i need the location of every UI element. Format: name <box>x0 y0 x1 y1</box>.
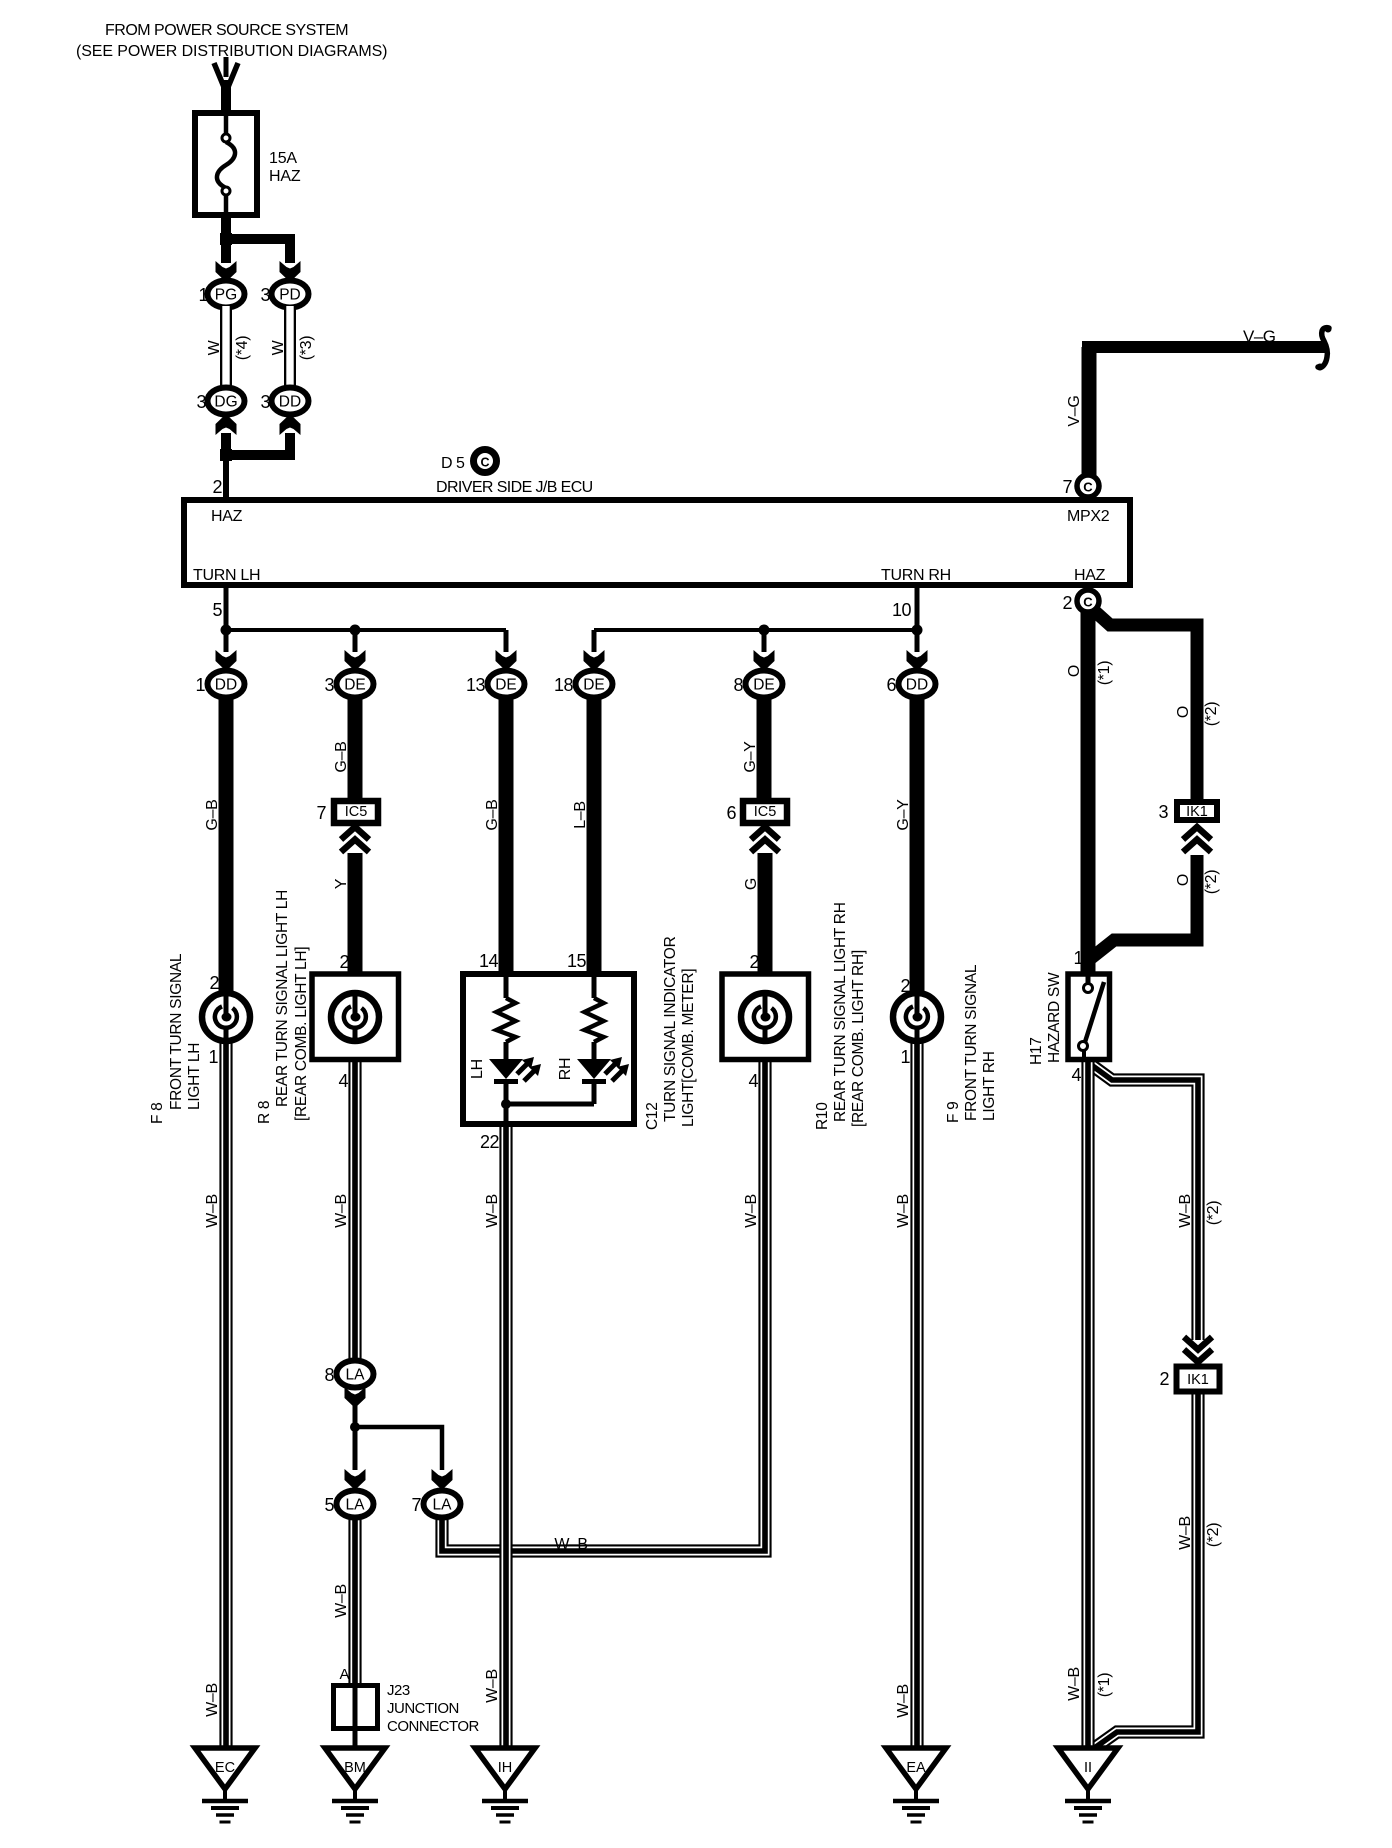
svg-text:V–G: V–G <box>1243 327 1276 346</box>
svg-text:G–B: G–B <box>333 741 350 772</box>
wire L-B DE18 to comb meter <box>587 697 602 974</box>
wire LA junction to LA5 <box>353 1427 358 1470</box>
svg-text:(SEE POWER DISTRIBUTION DIAGRA: (SEE POWER DISTRIBUTION DIAGRAMS) <box>76 43 387 60</box>
wire O (*1) ECU HAZ pin2 down to hazard sw pin1 <box>1081 612 1096 973</box>
svg-text:G–Y: G–Y <box>895 799 912 831</box>
svg-text:D 5: D 5 <box>441 455 465 472</box>
connector pigtail at V-G wire end <box>1317 326 1332 371</box>
wire LA8 to junction <box>353 1405 358 1430</box>
connector DD pin6 <box>899 671 936 698</box>
wire turn LH rail <box>226 628 506 632</box>
pin 7 label MPX2 <box>1062 477 1072 497</box>
svg-text:IK1: IK1 <box>1187 1372 1209 1388</box>
svg-text:G–B: G–B <box>204 799 221 830</box>
label V-G (vertical) <box>1066 395 1083 426</box>
label W-B col6 lower <box>895 1684 912 1718</box>
pin 14 label <box>479 951 499 971</box>
arrow into DG from below <box>216 414 237 435</box>
label W-B col3 lower <box>484 1669 501 1703</box>
arrow into LA7 <box>432 1469 453 1490</box>
svg-text:IC5: IC5 <box>345 804 368 820</box>
label LH <box>469 1059 486 1079</box>
svg-text:FROM POWER SOURCE SYSTEM: FROM POWER SOURCE SYSTEM <box>105 22 348 39</box>
label G col5 <box>743 878 760 890</box>
svg-text:W–B: W–B <box>895 1194 912 1228</box>
wire drop to DE13 <box>504 630 509 652</box>
svg-text:22: 22 <box>480 1132 500 1152</box>
svg-text:1: 1 <box>900 1047 910 1067</box>
svg-text:EC: EC <box>215 1760 235 1776</box>
wire drop to DD6 <box>915 630 920 652</box>
label (*2) branch upper <box>1203 702 1220 727</box>
svg-text:DG: DG <box>214 394 237 411</box>
svg-text:HAZ: HAZ <box>269 168 301 185</box>
svg-text:C12: C12 <box>644 1102 661 1130</box>
junction dot inside meter <box>501 1099 511 1109</box>
svg-text:18: 18 <box>554 675 574 695</box>
ground IH <box>475 1748 535 1822</box>
ground EC <box>195 1748 255 1822</box>
svg-text:TURN SIGNAL INDICATOR: TURN SIGNAL INDICATOR <box>662 936 679 1122</box>
wire W-B (*1) hazard sw pin4 to ground II <box>1081 1060 1094 1749</box>
connector DG pin3 <box>208 388 245 415</box>
pin 3 label DD top <box>260 392 270 412</box>
junction dot at pin10 rail <box>912 625 923 636</box>
ground BM <box>325 1748 385 1822</box>
svg-text:O: O <box>1175 706 1192 718</box>
label 15A HAZ <box>269 150 301 185</box>
label (SEE POWER DISTRIBUTION DIAGRAMS) <box>76 43 387 60</box>
wire W-B front turn RH to ground EA <box>910 1040 923 1749</box>
wire inside meter LH branch <box>504 974 509 998</box>
pin A label J23 <box>339 1666 349 1683</box>
arrow into connector PG <box>216 261 237 282</box>
label RH <box>557 1058 574 1081</box>
pin 5 label TURN LH <box>212 600 222 620</box>
wire O (*1) ECU HAZ pin2 to hazard sw branch to IK1 pin3 <box>1090 607 1197 801</box>
label (*1) hazard lower <box>1096 1673 1113 1698</box>
svg-text:G–B: G–B <box>484 799 501 830</box>
connector IC5 pin6 <box>743 801 787 823</box>
svg-text:IC5: IC5 <box>754 804 777 820</box>
pin 2 label ECU HAZ top <box>212 477 222 497</box>
svg-text:(*4): (*4) <box>234 336 251 361</box>
arrow double chevron into IC5 left <box>341 827 369 852</box>
svg-text:DE: DE <box>344 677 366 694</box>
svg-text:R10: R10 <box>814 1102 831 1130</box>
connector DE pin8 <box>746 671 783 698</box>
pin 2 label R8 <box>339 952 349 972</box>
pin 2 label F8 <box>209 973 219 993</box>
svg-text:DRIVER SIDE J/B ECU: DRIVER SIDE J/B ECU <box>436 479 593 496</box>
pin 15 label <box>567 951 587 971</box>
svg-text:DD: DD <box>215 677 237 694</box>
node TURN LH <box>193 567 260 584</box>
wire G-B DD1 to front turn LH <box>219 697 234 996</box>
connector PG pin1 <box>208 281 245 308</box>
svg-text:J23: J23 <box>387 1682 410 1699</box>
label (*3) <box>298 336 315 361</box>
svg-text:Y: Y <box>333 878 350 889</box>
node HAZ bottom-right <box>1074 567 1106 584</box>
connector IK1 pin3 <box>1177 802 1217 820</box>
label FROM POWER SOURCE SYSTEM <box>105 22 348 39</box>
svg-text:1: 1 <box>195 675 205 695</box>
svg-text:W–B: W–B <box>333 1584 350 1618</box>
svg-text:JUNCTION: JUNCTION <box>387 1700 459 1717</box>
connector DD pin1 <box>208 671 245 698</box>
pin 3 label IK1 <box>1158 802 1168 822</box>
svg-text:FRONT TURN SIGNAL: FRONT TURN SIGNAL <box>963 964 980 1121</box>
connector LA pin8 <box>337 1361 374 1388</box>
wire W-B rear turn LH to LA8 <box>348 1060 361 1363</box>
wire W-B comb meter pin22 to ground IH <box>499 1125 512 1749</box>
resistor LH <box>497 998 516 1042</box>
svg-text:(*2): (*2) <box>1205 1523 1222 1548</box>
wire drop to DE18 <box>592 630 597 652</box>
connector DE pin18 <box>576 671 613 698</box>
svg-text:V–G: V–G <box>1066 395 1083 426</box>
label O branch lower <box>1175 874 1192 886</box>
svg-text:LIGHT LH: LIGHT LH <box>186 1043 203 1110</box>
label DRIVER SIDE J/B ECU <box>436 479 593 496</box>
wire drop to DD1 <box>224 630 229 652</box>
svg-text:5: 5 <box>212 600 222 620</box>
svg-text:13: 13 <box>466 675 486 695</box>
svg-text:15A: 15A <box>269 150 297 167</box>
wire G-B DE13 to comb meter <box>499 697 514 974</box>
arrow from power source <box>214 57 238 92</box>
wire resistor to LED LH <box>504 1042 509 1060</box>
label O main <box>1066 665 1083 677</box>
svg-text:7: 7 <box>316 803 326 823</box>
arrow into connector DE pin18 <box>584 650 605 671</box>
pin 1 label F9 <box>900 1047 910 1067</box>
svg-text:(*1): (*1) <box>1096 1673 1113 1698</box>
svg-text:REAR TURN SIGNAL LIGHT LH: REAR TURN SIGNAL LIGHT LH <box>274 890 291 1107</box>
pin 6 label IC5 right <box>726 803 736 823</box>
svg-text:IK1: IK1 <box>1186 804 1208 820</box>
arrow out of LA8 <box>345 1387 366 1408</box>
svg-text:II: II <box>1084 1760 1092 1776</box>
junction connector J23 <box>334 1685 378 1729</box>
connector LA pin5 <box>337 1491 374 1518</box>
svg-text:6: 6 <box>886 675 896 695</box>
svg-text:G: G <box>743 878 760 890</box>
svg-text:O: O <box>1175 874 1192 886</box>
pin 1 label hazard sw <box>1073 948 1083 968</box>
combination meter C12 box <box>463 974 634 1124</box>
svg-text:2: 2 <box>212 477 222 497</box>
wire branch to PD <box>226 239 290 263</box>
arrow into connector DD pin1 <box>216 650 237 671</box>
label W-B col2 lower <box>333 1584 350 1618</box>
junction dot LA <box>350 1422 360 1432</box>
wire W-B front turn LH to ground EC <box>219 1040 232 1749</box>
svg-text:(*2): (*2) <box>1203 870 1220 895</box>
wire ECU pin5 stub <box>224 588 229 632</box>
pin 3 label DG <box>196 392 206 412</box>
wire W (*4) PG to DG <box>220 306 232 390</box>
wire DG down to junction <box>221 433 231 457</box>
connector DE pin3 <box>337 671 374 698</box>
junction dot at DE3 drop <box>350 625 361 636</box>
name F8 front turn signal light LH <box>149 953 203 1124</box>
svg-text:HAZARD SW: HAZARD SW <box>1046 972 1063 1063</box>
switch H17 hazard SW <box>1068 974 1110 1062</box>
svg-text:3: 3 <box>1158 802 1168 822</box>
svg-text:1: 1 <box>1073 948 1083 968</box>
connector PD pin3 <box>272 281 309 308</box>
label V-G (horizontal) <box>1243 327 1276 346</box>
svg-text:2: 2 <box>209 973 219 993</box>
svg-text:PD: PD <box>279 287 301 304</box>
fuse 15A HAZ <box>195 113 257 216</box>
label W-B col3 upper <box>484 1194 501 1228</box>
svg-text:DD: DD <box>906 677 928 694</box>
pin 2 label HAZ right <box>1062 593 1072 613</box>
svg-text:PG: PG <box>215 287 237 304</box>
svg-text:2: 2 <box>1062 593 1072 613</box>
wire V-G horizontal <box>1082 341 1326 353</box>
wire J23 to ground BM <box>353 1731 358 1749</box>
svg-text:W–B: W–B <box>1177 1194 1194 1228</box>
wire into ECU HAZ pin2 <box>223 455 229 499</box>
label (*4) <box>234 336 251 361</box>
wire drop to DE3 <box>353 630 358 652</box>
svg-text:C: C <box>1083 595 1093 610</box>
wire W (*3) PD to DD <box>284 306 296 390</box>
name F9 front turn signal light RH <box>945 964 998 1123</box>
pin 22 label <box>480 1132 500 1152</box>
label W-B col1 upper <box>204 1194 221 1228</box>
svg-text:5: 5 <box>324 1495 334 1515</box>
svg-text:(*3): (*3) <box>298 336 315 361</box>
label W-B col5 vertical <box>743 1194 760 1228</box>
svg-text:MPX2: MPX2 <box>1067 508 1110 525</box>
svg-text:4: 4 <box>748 1071 758 1091</box>
svg-text:4: 4 <box>1071 1065 1081 1085</box>
ground II <box>1058 1748 1118 1822</box>
svg-text:W–B: W–B <box>204 1194 221 1228</box>
arrow into connector DE pin3 <box>345 650 366 671</box>
svg-text:1: 1 <box>208 1047 218 1067</box>
svg-text:3: 3 <box>260 392 270 412</box>
wire W-B (*2) IK1 pin2 to ground II lower segment <box>1093 1392 1198 1749</box>
arrow into DD from below <box>280 414 301 435</box>
wire W-B (*2) hazard sw pin4 loop upper segment <box>1090 1064 1198 1340</box>
pin 1 label F8 <box>208 1047 218 1067</box>
svg-text:EA: EA <box>906 1760 926 1776</box>
svg-text:(*1): (*1) <box>1096 661 1113 686</box>
svg-text:W–B: W–B <box>484 1669 501 1703</box>
wire LED RH down to join <box>592 1084 597 1104</box>
svg-text:HAZ: HAZ <box>211 508 243 525</box>
svg-text:15: 15 <box>567 951 587 971</box>
label Y col2 <box>333 878 350 889</box>
pin 3 label DE <box>324 675 334 695</box>
label W-B loop lower <box>1177 1516 1194 1550</box>
svg-text:2: 2 <box>749 952 759 972</box>
svg-text:6: 6 <box>726 803 736 823</box>
connector LA pin7 <box>424 1491 461 1518</box>
svg-text:L–B: L–B <box>572 801 589 829</box>
arrow into connector DE pin13 <box>496 650 517 671</box>
svg-text:TURN RH: TURN RH <box>881 567 951 584</box>
svg-text:W–B: W–B <box>895 1684 912 1718</box>
node MPX2 <box>1067 508 1110 525</box>
junction dot at pin5 rail <box>221 625 232 636</box>
arrow into connector DD pin6 <box>907 650 928 671</box>
svg-text:W–B: W–B <box>484 1194 501 1228</box>
svg-text:W–B: W–B <box>743 1194 760 1228</box>
wire W-B LA5 to junction connector J23 <box>348 1515 361 1685</box>
pin 1 label PG <box>198 285 208 305</box>
wire below fuse <box>221 216 231 244</box>
wire LED LH to junction <box>504 1084 509 1127</box>
pin 13 label DE <box>466 675 486 695</box>
svg-text:C: C <box>480 456 489 470</box>
svg-text:TURN LH: TURN LH <box>193 567 260 584</box>
svg-text:REAR TURN SIGNAL LIGHT RH: REAR TURN SIGNAL LIGHT RH <box>832 902 849 1122</box>
svg-text:7: 7 <box>1062 477 1072 497</box>
lamp F8 front turn signal light LH <box>202 993 250 1041</box>
ground EA <box>886 1748 946 1822</box>
svg-text:2: 2 <box>900 976 910 996</box>
wire G IC5 to rear turn RH <box>758 853 773 974</box>
label W-B col6 upper <box>895 1194 912 1228</box>
pin 18 label DE <box>554 675 574 695</box>
svg-text:DE: DE <box>753 677 775 694</box>
arrow double chevron into IK1 pin2 <box>1184 1337 1212 1362</box>
connector DD pin3 top <box>272 388 309 415</box>
lamp R8 rear turn signal light LH <box>312 974 399 1060</box>
wire ECU pin10 stub <box>915 588 920 632</box>
arrow double chevron into IC5 right <box>751 827 779 852</box>
svg-text:DE: DE <box>495 677 517 694</box>
pin 4 label R10 <box>748 1071 758 1091</box>
label G-B col3 <box>484 799 501 830</box>
name R10 rear turn signal light RH <box>814 902 867 1130</box>
svg-text:IH: IH <box>498 1760 513 1776</box>
label (*2) loop lower <box>1205 1523 1222 1548</box>
svg-text:14: 14 <box>479 951 499 971</box>
svg-text:W–B: W–B <box>1066 1667 1083 1701</box>
label W-B hazard lower <box>1066 1667 1083 1701</box>
pin 2 label F9 <box>900 976 910 996</box>
svg-text:2: 2 <box>1159 1369 1169 1389</box>
label (*1) main <box>1096 661 1113 686</box>
wire V-G vertical to ECU MPX2 pin7 <box>1082 347 1097 477</box>
wire resistor to LED RH <box>592 1042 597 1060</box>
label W-B loop upper <box>1177 1194 1194 1228</box>
label G-Y col5 <box>742 741 759 773</box>
svg-text:3: 3 <box>260 285 270 305</box>
svg-text:C: C <box>1083 480 1093 495</box>
wire stub to PG <box>221 239 231 263</box>
svg-text:W: W <box>270 339 287 355</box>
svg-text:A: A <box>339 1666 349 1683</box>
connector IC5 pin7 <box>334 801 378 823</box>
label G-Y col6 <box>895 799 912 831</box>
svg-text:BM: BM <box>344 1760 366 1776</box>
wire G-Y DD6 to front turn RH <box>910 697 925 996</box>
resistor RH <box>585 998 604 1042</box>
wire DD down to junction <box>231 433 290 455</box>
svg-text:DE: DE <box>583 677 605 694</box>
svg-text:F 8: F 8 <box>149 1103 166 1125</box>
svg-text:F 9: F 9 <box>945 1102 962 1124</box>
svg-text:LH: LH <box>469 1059 486 1079</box>
label W-B col2 upper <box>333 1194 350 1228</box>
svg-text:O: O <box>1066 665 1083 677</box>
wire inside meter RH branch <box>592 974 597 998</box>
name R8 rear turn signal light LH <box>256 890 310 1124</box>
wire drop to DE8 <box>762 630 767 652</box>
wire join LH-RH inside meter <box>506 1102 594 1107</box>
svg-text:W–B: W–B <box>333 1194 350 1228</box>
svg-text:W: W <box>206 339 223 355</box>
svg-text:H17: H17 <box>1028 1037 1045 1065</box>
wire into fuse <box>221 80 231 113</box>
label (*2) loop upper <box>1205 1201 1222 1226</box>
svg-text:LIGHT RH: LIGHT RH <box>981 1051 998 1121</box>
svg-text:[REAR COMB. LIGHT RH]: [REAR COMB. LIGHT RH] <box>850 950 867 1127</box>
pin 2 label IK1 <box>1159 1369 1169 1389</box>
svg-text:DD: DD <box>279 394 301 411</box>
svg-text:LA: LA <box>346 1367 366 1384</box>
pin 8 label LA <box>324 1365 334 1385</box>
label (*2) branch lower <box>1203 870 1220 895</box>
svg-text:10: 10 <box>892 600 912 620</box>
svg-text:(*2): (*2) <box>1203 702 1220 727</box>
svg-text:8: 8 <box>324 1365 334 1385</box>
junction below fuse <box>220 233 232 245</box>
pin 4 label hazard sw <box>1071 1065 1081 1085</box>
label W-B col1 lower <box>204 1683 221 1717</box>
pin 3 label PD <box>260 285 270 305</box>
wire turn RH rail <box>594 628 917 632</box>
arrow double chevron into IK1 pin3 <box>1183 827 1211 852</box>
wire G-Y DE8 to IC5 <box>757 697 772 801</box>
label G-B col2 <box>333 741 350 772</box>
svg-text:LIGHT[COMB. METER]: LIGHT[COMB. METER] <box>680 969 697 1127</box>
pin 8 label DE <box>733 675 743 695</box>
name J23 junction connector <box>387 1682 480 1735</box>
pin 2 connector circle C <box>1077 590 1099 612</box>
svg-text:R 8: R 8 <box>256 1101 273 1124</box>
node HAZ top-left <box>211 508 243 525</box>
svg-text:LA: LA <box>346 1497 366 1514</box>
svg-text:3: 3 <box>196 392 206 412</box>
pin 7 connector circle C <box>1077 475 1099 497</box>
svg-text:(*2): (*2) <box>1205 1201 1222 1226</box>
svg-text:RH: RH <box>557 1058 574 1081</box>
label O branch upper <box>1175 706 1192 718</box>
pin 2 label R10 <box>749 952 759 972</box>
name C12 turn signal indicator light <box>644 936 697 1130</box>
junction dot at DE8 drop <box>759 625 770 636</box>
label L-B col4 <box>572 801 589 829</box>
wire Y IC5 to rear turn LH <box>348 853 363 974</box>
svg-text:7: 7 <box>411 1495 421 1515</box>
svg-text:W–B: W–B <box>554 1536 587 1553</box>
svg-text:CONNECTOR: CONNECTOR <box>387 1718 480 1735</box>
label W left pair <box>206 339 223 355</box>
pin 7 label LA <box>411 1495 421 1515</box>
pin 5 label LA <box>324 1495 334 1515</box>
connector IK1 pin2 <box>1177 1367 1220 1392</box>
